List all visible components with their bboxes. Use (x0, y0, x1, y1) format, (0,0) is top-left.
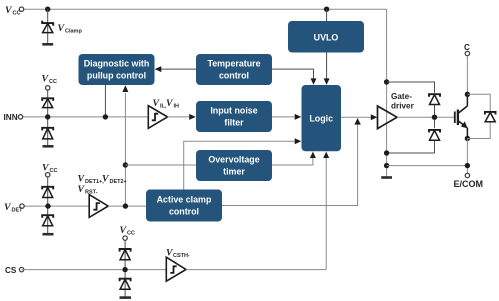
block Diagnostic with pullup control (79, 54, 155, 85)
svg-text:DET: DET (12, 208, 24, 214)
wire branch to output clamp diodes top (387, 82, 435, 93)
node junction VDET diodes (45, 203, 50, 208)
wire VDET sense up to Diagnostic (124, 93, 126, 206)
svg-text:Input noise: Input noise (210, 106, 257, 116)
block Overvoltage timer (196, 150, 272, 181)
ground under INN clamp (43, 145, 54, 148)
ground under VClamp (42, 43, 53, 46)
schmitt buffer CS (166, 257, 186, 281)
svg-text:C: C (464, 43, 470, 52)
diode freewheel (485, 112, 496, 122)
svg-text:control: control (169, 207, 199, 217)
svg-text:pullup control: pullup control (87, 71, 146, 81)
wire INN buffer to Input noise filter (168, 116, 190, 118)
node VCC terminal circle CS clamp (123, 236, 127, 240)
wire branch to Overvoltage timer (125, 164, 196, 166)
node INN terminal (18, 115, 22, 119)
diode output clamp lower (429, 130, 440, 140)
gate driver triangle U2 (378, 106, 398, 129)
arrow into Logic top (from Temperature) (311, 78, 317, 84)
wire Active clamp right output (222, 124, 358, 206)
ground under CS clamp (120, 296, 132, 299)
ground under rail (381, 176, 392, 179)
arrow into Logic bottom (timer) (310, 152, 316, 158)
node junction INN diodes (45, 114, 50, 119)
node junction VCC/VClamp (45, 7, 50, 12)
svg-text:UVLO: UVLO (314, 33, 339, 43)
svg-text:Overvoltage: Overvoltage (208, 155, 259, 165)
wire right vertical supply rail (386, 9, 388, 176)
ground under VDET clamp (43, 233, 54, 236)
capacitor-zener VClamp diode (42, 21, 53, 33)
svg-text:INN: INN (4, 113, 18, 122)
node C terminal (465, 51, 469, 55)
arrow active clamp into driver wire (354, 118, 360, 125)
svg-text:CSTH-: CSTH- (173, 253, 190, 259)
wire CS buffer output (186, 269, 326, 271)
svg-text:filter: filter (224, 118, 244, 128)
wire UVLO to Logic top (326, 53, 328, 80)
svg-text:DET2+: DET2+ (110, 179, 127, 185)
svg-text:Diagnostic with: Diagnostic with (84, 59, 150, 69)
node junction UVLO feed (324, 7, 329, 12)
wire VClamp stem (47, 9, 49, 44)
arrow into Logic bottom (CS) (323, 152, 329, 158)
block UVLO (288, 21, 364, 53)
node ECOM terminal (465, 173, 469, 177)
node junction supply to bootstrap diodes (384, 79, 389, 84)
wire clamp diode bottom return (387, 152, 435, 154)
block Logic (302, 85, 342, 151)
node junction emitter (465, 136, 470, 141)
wire UVLO feed down (326, 9, 328, 21)
wire Diagnostic pullup to INN line (104, 85, 106, 117)
diode CS to VCC (120, 249, 131, 260)
wire clamp diode column upper (434, 105, 436, 115)
svg-text:E/COM: E/COM (454, 179, 484, 189)
svg-text:CC: CC (127, 231, 135, 237)
arrow into Logic left (active clamp) (295, 138, 302, 144)
wire VDET buffer to Active clamp control (108, 205, 146, 207)
schmitt buffer VDET (89, 195, 108, 218)
svg-text:IH: IH (174, 104, 180, 110)
arrow into Logic left (filter) (295, 114, 302, 120)
svg-text:control: control (219, 71, 249, 81)
wire VDET line (22, 205, 89, 207)
wire CS comparator to Logic bottom (325, 158, 327, 270)
svg-text:Active clamp: Active clamp (157, 195, 212, 205)
arrow into Diagnostic right edge (155, 66, 162, 72)
block Active clamp control (146, 190, 222, 222)
node junction INN pullup (103, 114, 108, 119)
wire CS line (22, 269, 167, 271)
arrow into Input noise filter (189, 114, 196, 120)
wire freewheel diode loop (467, 94, 490, 138)
svg-text:CC: CC (49, 79, 57, 85)
svg-text:Logic: Logic (309, 114, 333, 124)
node junction rail return (384, 150, 389, 155)
svg-text:CC: CC (50, 168, 58, 174)
svg-text:Gate-: Gate- (391, 92, 412, 101)
wire INN clamp column (47, 90, 49, 146)
diode CS to GND (120, 279, 131, 290)
node CS terminal (19, 267, 23, 271)
wire CS clamp column (124, 240, 126, 297)
diode INN to VCC (42, 98, 53, 107)
arrow up into Diagnostic bottom (122, 85, 128, 92)
transistor IGBT (455, 94, 468, 138)
wire Active clamp top output to Logic left (184, 141, 295, 189)
wire VDET clamp column (47, 177, 49, 234)
wire INN line (21, 116, 149, 118)
wire Input noise filter to Logic (272, 116, 295, 118)
node junction clamp diodes mid (432, 115, 437, 120)
svg-text:CC: CC (13, 11, 21, 17)
wire clamp diode column lower (434, 120, 436, 153)
wire Logic to gate driver (341, 116, 371, 118)
node VDET terminal (20, 204, 24, 208)
wire ECOM line (387, 165, 468, 167)
block Temperature control (196, 54, 272, 85)
wire Temperature control to Diagnostic (156, 68, 196, 70)
wire collector (466, 56, 468, 95)
node junction rail ECOM (384, 163, 389, 168)
node junction CS diodes (122, 267, 127, 272)
node junction overvoltage branch (123, 162, 128, 167)
diode VDET to GND (42, 215, 53, 226)
svg-text:RST-: RST- (85, 190, 98, 196)
arrow into gate driver (371, 114, 378, 120)
wire emitter down (466, 139, 468, 174)
svg-text:driver: driver (391, 102, 415, 111)
block Input noise filter (196, 101, 272, 132)
diode INN to GND (42, 128, 53, 139)
wire Overvoltage timer to Logic bottom (272, 158, 313, 166)
svg-text:Temperature: Temperature (207, 59, 260, 69)
node VCC terminal circle INN clamp (46, 86, 50, 90)
diode output clamp upper (429, 94, 440, 104)
svg-text:timer: timer (223, 167, 245, 177)
node junction VDET sense (123, 203, 128, 208)
node junction emitter ECOM (465, 163, 470, 168)
node junction collector (465, 92, 470, 97)
node VCC terminal (19, 7, 23, 11)
wire top VCC rail (22, 8, 387, 10)
wire gate driver output (397, 116, 455, 118)
wire Temperature control to Logic top (272, 69, 314, 79)
schmitt buffer INN (148, 106, 167, 129)
diode VDET to VCC (42, 187, 53, 198)
svg-text:CS: CS (5, 266, 17, 275)
svg-text:Clamp: Clamp (65, 29, 82, 35)
node VCC terminal circle VDET clamp (46, 173, 50, 177)
arrow into Logic top (from UVLO) (324, 78, 330, 84)
